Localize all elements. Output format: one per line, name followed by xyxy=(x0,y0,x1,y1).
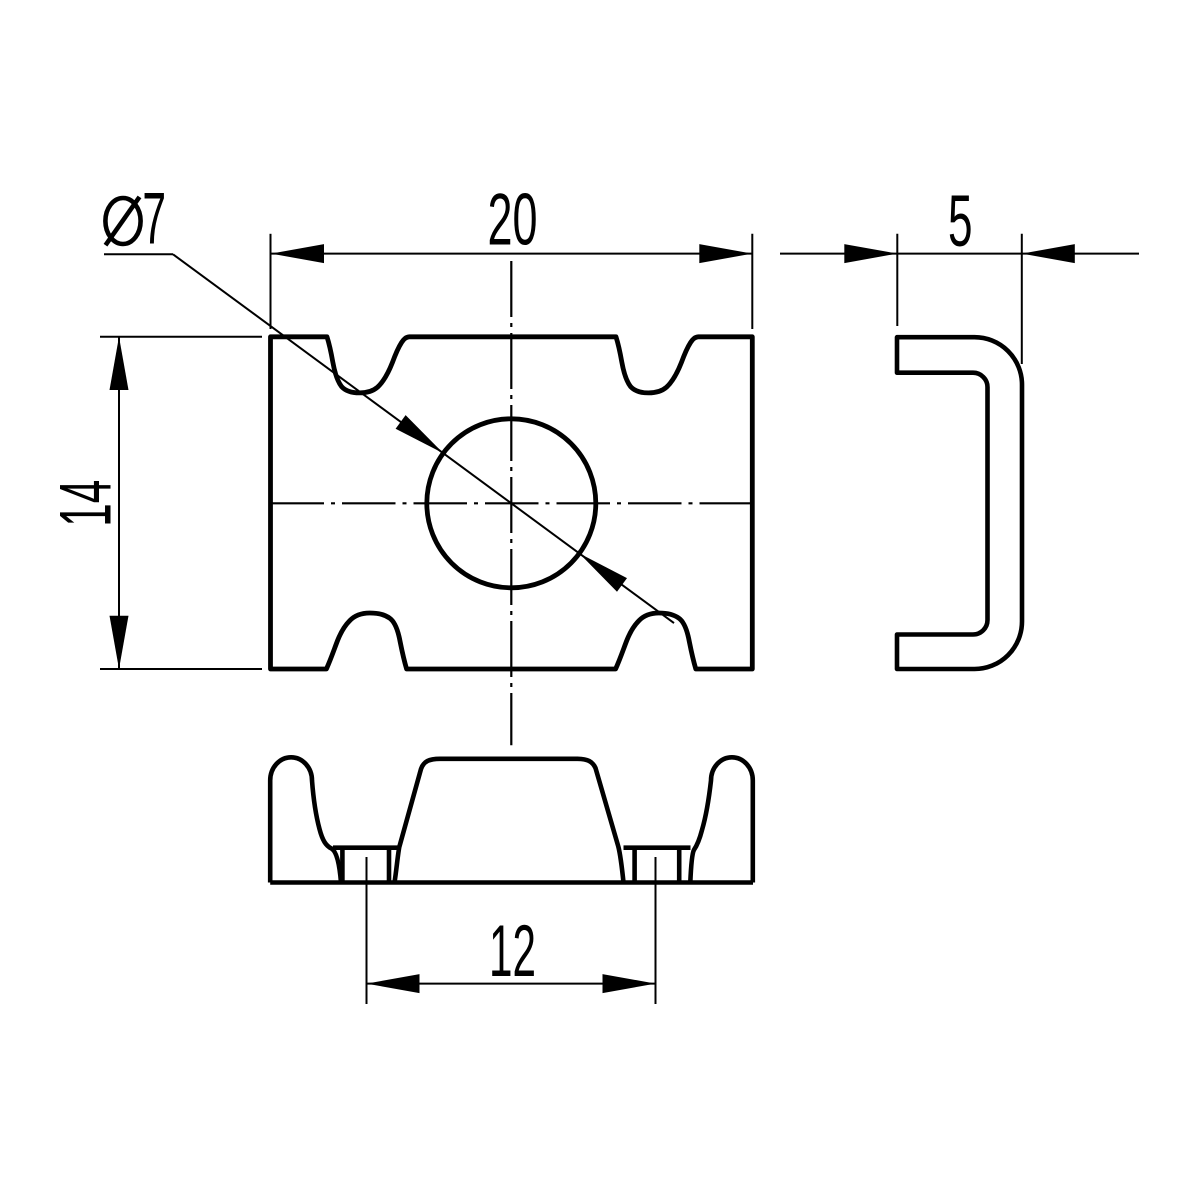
svg-text:12: 12 xyxy=(489,911,536,992)
svg-text:14: 14 xyxy=(46,480,127,527)
svg-text:5: 5 xyxy=(948,181,973,262)
svg-text:20: 20 xyxy=(488,179,538,260)
svg-text:7: 7 xyxy=(142,179,166,260)
